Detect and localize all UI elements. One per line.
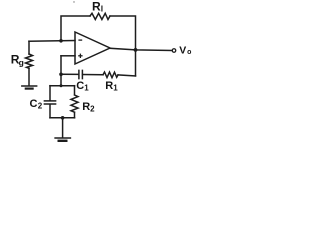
minus mark: [78, 39, 82, 41]
wire R2 branch top: [74, 86, 76, 95]
wire inverting input: [29, 40, 75, 43]
svg-text:R: R: [92, 0, 101, 13]
wire Rg bottom: [28, 68, 30, 85]
wire Rg top: [28, 41, 30, 54]
wire mid vertical node B: [60, 56, 62, 86]
wire ground stem: [62, 118, 64, 138]
node combo top: [60, 84, 63, 87]
resistor Rf: [90, 13, 110, 19]
speck: [73, 1, 74, 2]
svg-text:2: 2: [90, 104, 95, 113]
wire C2 branch top: [49, 86, 51, 101]
svg-text:o: o: [187, 49, 191, 56]
node output junction: [134, 48, 138, 52]
wire combo bottom: [50, 117, 75, 119]
svg-text:g: g: [19, 58, 24, 68]
wire C1 to R1: [83, 74, 103, 76]
ground (bottom): [55, 138, 70, 141]
op-amp U1: [75, 32, 110, 64]
terminal Vo circle: [172, 49, 176, 53]
svg-text:1: 1: [84, 83, 89, 92]
wire R2 branch bottom: [74, 113, 76, 118]
svg-text:1: 1: [113, 84, 118, 93]
wire top feedback left segment: [61, 16, 90, 41]
wire output: [110, 48, 172, 50]
wire C2 branch bottom: [49, 105, 51, 118]
node C1 tap: [59, 73, 63, 77]
svg-text:l: l: [101, 4, 103, 14]
resistor R1: [103, 72, 118, 78]
svg-text:C: C: [30, 98, 38, 110]
capacitor C1: [79, 70, 83, 78]
svg-text:2: 2: [38, 102, 43, 111]
svg-text:V: V: [179, 44, 186, 56]
svg-text:R: R: [82, 101, 90, 113]
wire R1 to output node: [118, 75, 136, 76]
wire to C1: [61, 73, 79, 75]
plus mark: [78, 55, 82, 57]
node inverting junction: [59, 39, 63, 43]
svg-text:C: C: [76, 80, 84, 92]
wire top feedback right segment: [110, 16, 136, 76]
node combo bottom: [61, 116, 65, 120]
node junction dots: [59, 1, 137, 119]
wire noninverting input: [61, 55, 75, 57]
svg-text:R: R: [105, 80, 113, 92]
capacitor C2: [44, 101, 55, 104]
ground (Rg): [22, 86, 37, 89]
resistor Rg: [26, 54, 33, 68]
wire combo top: [50, 85, 75, 87]
resistor R2: [71, 95, 78, 112]
op-amp input polarity marks: [78, 40, 82, 58]
